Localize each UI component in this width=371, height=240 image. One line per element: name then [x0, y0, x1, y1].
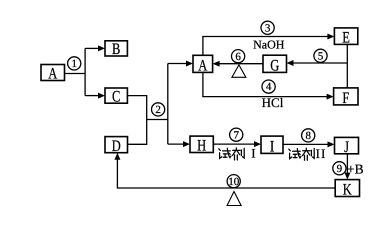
step 6 circle — [232, 50, 245, 63]
svg-text:J: J — [344, 139, 349, 156]
step 8 circle — [302, 129, 315, 142]
wire A2 top to E — [203, 34, 335, 56]
svg-text:5: 5 — [318, 50, 324, 62]
wire split vertical — [84, 48, 86, 95]
step 7 circle — [230, 128, 243, 141]
box I — [261, 136, 283, 155]
box G — [263, 55, 287, 74]
wire riser — [167, 64, 169, 145]
label reagent I (shi ji I) — [219, 146, 256, 161]
svg-text:E: E — [342, 30, 350, 47]
wire A2 bottom to F — [203, 72, 334, 99]
label reagent II (shi ji II) — [289, 146, 327, 161]
box D — [105, 137, 128, 155]
svg-text:7: 7 — [233, 129, 239, 141]
step 2 circle — [152, 103, 165, 116]
box C — [105, 88, 127, 105]
svg-text:1: 1 — [71, 58, 77, 70]
svg-text:10: 10 — [228, 176, 240, 188]
box J — [335, 137, 359, 155]
step 9 circle — [333, 162, 346, 175]
wire bridge — [147, 119, 168, 121]
wire H to I arrow — [213, 141, 261, 147]
step 3 circle — [261, 21, 274, 34]
svg-text:K: K — [343, 182, 352, 199]
svg-text:I: I — [270, 138, 274, 155]
svg-text:C: C — [112, 88, 120, 105]
svg-text:NaOH: NaOH — [253, 37, 285, 51]
svg-text:D: D — [112, 138, 121, 155]
svg-text:2: 2 — [155, 104, 161, 116]
svg-text:8: 8 — [305, 130, 311, 142]
heat triangle under 6 — [232, 65, 246, 77]
svg-text:G: G — [270, 57, 279, 74]
svg-text:H: H — [197, 138, 206, 155]
wire EF riser to G arrow — [287, 60, 348, 66]
svg-text:3: 3 — [265, 22, 271, 34]
step 1 circle — [68, 57, 81, 70]
wire I to J arrow — [283, 141, 335, 147]
heat triangle under 10 — [227, 192, 241, 206]
step 4 circle — [262, 80, 275, 93]
wire arrow to H — [168, 141, 190, 147]
wire J down to K arrow — [344, 154, 350, 180]
wire G to A2 arrow — [213, 61, 263, 67]
wire arrow to C — [85, 93, 105, 99]
svg-text:II: II — [316, 146, 327, 161]
svg-text:A: A — [198, 58, 207, 75]
wire arrow to B — [85, 45, 105, 51]
svg-text:+B: +B — [347, 162, 364, 177]
box K — [335, 180, 359, 199]
svg-text:A: A — [48, 66, 57, 83]
svg-text:4: 4 — [266, 81, 272, 93]
svg-text:I: I — [251, 146, 255, 161]
svg-text:F: F — [342, 90, 349, 107]
wire E to F vertical — [346, 44, 348, 88]
box B — [105, 41, 127, 58]
step 10 circle — [227, 175, 240, 188]
wire K return to D arrow — [114, 153, 335, 188]
box F — [334, 88, 358, 107]
box E — [334, 28, 357, 47]
box H — [190, 136, 213, 155]
wire arrow to A2 — [168, 61, 193, 67]
svg-text:6: 6 — [235, 51, 241, 63]
box A1 — [41, 65, 65, 83]
svg-text:HCl: HCl — [262, 95, 284, 110]
box A2 — [193, 55, 213, 74]
wire A1 to split — [65, 73, 86, 75]
wire C to junction — [127, 96, 146, 145]
step 5 circle — [314, 49, 327, 62]
svg-text:9: 9 — [337, 163, 343, 175]
svg-text:B: B — [112, 41, 120, 58]
